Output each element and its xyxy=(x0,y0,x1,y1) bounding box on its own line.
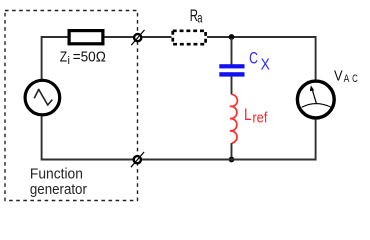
svg-text:A: A xyxy=(344,73,350,85)
capacitor Cx (plates) xyxy=(219,64,244,76)
resistor Ra (dashed box) xyxy=(173,31,206,44)
wire: top junction down to capacitor xyxy=(231,38,233,65)
svg-text:X: X xyxy=(261,56,271,73)
label Function generator xyxy=(30,166,87,198)
function generator enclosure (dashed box) xyxy=(5,11,138,201)
label Lref xyxy=(244,105,268,126)
wire: source bottom down and right to bottom terminal xyxy=(42,116,134,160)
source: sine-wave generator xyxy=(25,80,60,115)
wire: inductor to bottom junction xyxy=(231,143,233,159)
terminal (bottom output jack) xyxy=(131,152,144,167)
svg-text:Z: Z xyxy=(60,49,68,65)
svg-text:ref: ref xyxy=(252,109,268,126)
terminal (top output jack) xyxy=(131,30,144,45)
wire: source top up and right to Zi resistor xyxy=(42,37,68,79)
meter Vac (AC voltmeter) xyxy=(297,81,334,118)
svg-text:V: V xyxy=(334,67,343,84)
label Ra xyxy=(190,7,203,26)
wire: top terminal to Ra box xyxy=(142,36,171,38)
label Vac xyxy=(334,67,358,85)
node: bottom junction xyxy=(229,157,235,163)
svg-text:=50Ω: =50Ω xyxy=(73,49,106,65)
resistor Zi xyxy=(69,31,103,44)
svg-text:generator: generator xyxy=(30,181,87,198)
svg-text:i: i xyxy=(68,55,70,67)
wire: resistor to top terminal xyxy=(105,36,134,38)
svg-text:a: a xyxy=(197,10,202,26)
node: top junction xyxy=(229,34,235,40)
wire: capacitor to inductor xyxy=(231,76,233,94)
svg-text:L: L xyxy=(244,105,252,124)
wire: Ra to meter top (through node) xyxy=(207,37,316,80)
label Cx xyxy=(249,49,270,73)
inductor Lref (red coil) xyxy=(230,95,238,144)
wire: bottom terminal to meter bottom xyxy=(142,119,316,160)
label Zi=50ohm xyxy=(60,49,106,67)
svg-text:C: C xyxy=(249,49,258,67)
svg-text:C: C xyxy=(352,73,358,85)
